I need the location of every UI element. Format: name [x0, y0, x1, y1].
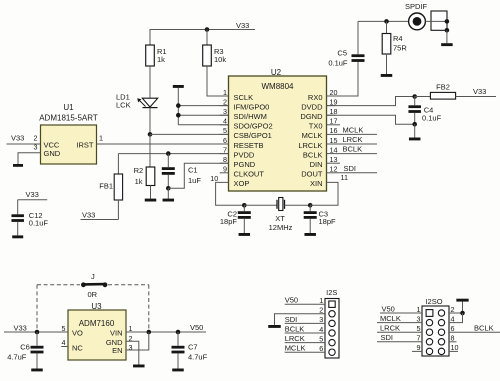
svg-text:LRCLK: LRCLK: [298, 141, 322, 150]
I2SO left wires (V50/MCLK/LRCK/SDI): [377, 304, 422, 351]
svg-text:5: 5: [223, 126, 227, 135]
svg-text:GND: GND: [44, 149, 61, 158]
svg-text:9: 9: [417, 343, 421, 352]
svg-text:XT: XT: [275, 214, 285, 223]
svg-text:C6: C6: [20, 342, 30, 351]
svg-text:0.1uF: 0.1uF: [29, 218, 49, 227]
I2SO pin10 stub: [449, 350, 458, 352]
wire R3 to SCLK (pin1): [207, 66, 229, 96]
wire U1 GND pin 3: [18, 153, 41, 164]
svg-text:2: 2: [34, 134, 38, 143]
svg-text:9: 9: [223, 165, 227, 174]
ground (C3): [304, 233, 316, 236]
junction C1 bottom: [166, 186, 171, 191]
svg-text:XIN: XIN: [310, 179, 323, 188]
wire CSB node to R2 (crosses IRST wire): [149, 134, 151, 167]
svg-text:10: 10: [210, 174, 218, 183]
net BCLK (I2SO pin6): [449, 324, 500, 333]
svg-text:U1: U1: [63, 103, 74, 112]
ground (U1 GND): [13, 164, 23, 167]
svg-text:LRCK: LRCK: [285, 334, 305, 343]
svg-text:18pF: 18pF: [220, 217, 238, 226]
connector I2SO header (2x5): [417, 297, 459, 356]
svg-text:14: 14: [330, 145, 338, 154]
svg-text:16: 16: [330, 126, 338, 135]
svg-text:R4: R4: [393, 34, 403, 43]
power rail V33 (top): [150, 21, 256, 30]
svg-text:R2: R2: [134, 166, 144, 175]
svg-text:SCLK: SCLK: [234, 93, 254, 102]
power flag V33 (U1 supply): [7, 134, 41, 145]
power flag V33 (C12): [18, 190, 48, 214]
junction C2 top: [242, 203, 247, 208]
svg-text:SDI: SDI: [285, 315, 298, 324]
junction R4 top: [384, 19, 389, 24]
capacitor C2 18pF: [220, 205, 251, 233]
svg-text:1uF: 1uF: [188, 176, 201, 185]
svg-text:PGND: PGND: [234, 160, 256, 169]
ground (U3 GND): [133, 365, 145, 368]
svg-text:18pF: 18pF: [319, 217, 337, 226]
I2SO pin8 stub: [449, 341, 457, 343]
svg-text:J: J: [91, 272, 95, 281]
svg-text:15: 15: [330, 136, 338, 145]
svg-text:10k: 10k: [214, 55, 226, 64]
svg-text:7: 7: [417, 334, 421, 343]
resistor R3 10k: [203, 30, 227, 67]
crystal XT 12MHz: [269, 198, 293, 232]
svg-text:LRCK: LRCK: [343, 135, 363, 144]
svg-text:C1: C1: [188, 166, 198, 175]
svg-text:4: 4: [451, 314, 455, 323]
svg-text:1k: 1k: [157, 55, 165, 64]
svg-text:10: 10: [451, 343, 459, 352]
svg-text:12MHz: 12MHz: [269, 223, 293, 232]
connector SPDIF (RCA jack): [405, 2, 449, 43]
ferrite bead FB1: [99, 154, 122, 220]
net LRCK (pin15): [335, 135, 377, 144]
wire crystal right: [285, 204, 311, 206]
svg-text:FB1: FB1: [99, 182, 113, 191]
svg-text:C5: C5: [337, 48, 347, 57]
svg-text:VO: VO: [72, 329, 83, 338]
junction pin3 tie: [176, 113, 181, 118]
svg-text:LRCK: LRCK: [380, 324, 400, 333]
svg-text:20: 20: [330, 88, 338, 97]
wire EN tie to VIN (pin3): [126, 332, 149, 350]
wire DVDD (pin19): [327, 97, 415, 106]
svg-text:U2: U2: [271, 68, 282, 77]
IC U2 WM8804 S/PDIF transceiver: [210, 68, 348, 191]
svg-text:1: 1: [417, 305, 421, 314]
svg-text:RX0: RX0: [308, 93, 323, 102]
capacitor C1 1uF: [162, 154, 202, 189]
svg-text:SDI: SDI: [381, 333, 394, 342]
junction I2SO ground tie: [460, 311, 465, 316]
svg-text:MCLK: MCLK: [302, 131, 323, 140]
wire VIN to V50: [126, 323, 206, 332]
svg-text:2: 2: [451, 305, 455, 314]
svg-text:17: 17: [330, 117, 338, 126]
svg-text:1: 1: [99, 134, 103, 143]
svg-text:4.7uF: 4.7uF: [188, 353, 208, 362]
ground (C7): [172, 369, 184, 372]
svg-text:3: 3: [417, 314, 421, 323]
ground (C4/DGND): [409, 138, 421, 141]
svg-text:MCLK: MCLK: [343, 125, 364, 134]
svg-text:VCC: VCC: [44, 140, 60, 149]
junction CSB/GPO1 node: [148, 132, 153, 137]
svg-text:I2SO: I2SO: [425, 297, 442, 306]
svg-text:1: 1: [129, 324, 133, 333]
wire XOP (pin10) to crystal: [216, 182, 245, 205]
wire I2SO pin2 to ground: [449, 302, 463, 313]
ground (C2): [239, 233, 251, 236]
svg-text:4: 4: [319, 325, 323, 334]
ground (pins 2,3,4 tie-off): [173, 85, 229, 125]
svg-text:SDO/GPO2: SDO/GPO2: [234, 122, 273, 131]
svg-text:18: 18: [330, 107, 338, 116]
svg-text:I2S: I2S: [326, 288, 337, 297]
junction C7 top: [176, 330, 181, 335]
capacitor C4 0.1uF: [408, 97, 441, 125]
ground (R4): [381, 74, 393, 77]
resistor R4 75R: [382, 21, 407, 74]
svg-text:DOUT: DOUT: [301, 170, 323, 179]
ground (C6): [31, 369, 43, 372]
svg-text:4: 4: [62, 338, 66, 347]
svg-text:XOP: XOP: [234, 179, 250, 188]
svg-text:V50: V50: [190, 323, 203, 332]
wire U3 GND (pin2): [126, 341, 139, 364]
svg-text:C7: C7: [188, 342, 198, 351]
svg-text:6: 6: [223, 136, 227, 145]
svg-text:V50: V50: [382, 304, 395, 313]
svg-text:BCLK: BCLK: [303, 150, 323, 159]
junction EN/VIN node: [147, 330, 152, 335]
svg-text:WM8804: WM8804: [261, 82, 294, 91]
svg-text:MCLK: MCLK: [380, 314, 401, 323]
svg-text:FB2: FB2: [436, 83, 450, 92]
junction C4 top: [412, 94, 417, 99]
wire crystal to XIN (pin11): [310, 182, 338, 205]
connector I2S header: [319, 288, 339, 358]
svg-text:ADM7160: ADM7160: [79, 319, 115, 328]
svg-text:13: 13: [330, 155, 338, 164]
svg-text:3: 3: [319, 315, 323, 324]
svg-text:3: 3: [223, 107, 227, 116]
svg-text:1: 1: [319, 296, 323, 305]
net BCLK (pin14): [335, 145, 377, 154]
svg-text:V33: V33: [14, 324, 27, 333]
svg-text:V33: V33: [82, 210, 95, 219]
svg-text:IFM/GPO0: IFM/GPO0: [234, 102, 270, 111]
svg-text:IRST: IRST: [76, 140, 94, 149]
svg-text:V33: V33: [26, 190, 39, 199]
svg-text:V50: V50: [285, 296, 298, 305]
svg-text:1: 1: [223, 88, 227, 97]
svg-text:RESETB: RESETB: [234, 141, 264, 150]
svg-text:11: 11: [341, 173, 348, 182]
svg-text:DIN: DIN: [310, 160, 323, 169]
wire PVDD (pin7): [118, 153, 228, 155]
svg-text:6: 6: [319, 344, 323, 353]
svg-text:EN: EN: [112, 346, 122, 355]
LED LD1 (LCK indicator): [116, 93, 158, 110]
ground (SPDIF shield): [441, 43, 453, 46]
wire LED cathode to junction: [149, 108, 151, 135]
net MCLK (pin16): [335, 125, 377, 134]
svg-text:V33: V33: [11, 134, 24, 143]
svg-text:12: 12: [330, 165, 338, 174]
wire RX0 (pin20) to C5: [327, 62, 359, 96]
ground (I2SO pin2, bar above): [456, 299, 468, 302]
ground (C12): [12, 235, 23, 238]
ground (C1/PGND): [163, 199, 175, 202]
wire C1 bottom to ground: [167, 188, 169, 198]
power flag V33 (FB1): [81, 210, 119, 219]
wire C4 bottom to ground: [414, 124, 416, 137]
svg-text:PVDD: PVDD: [234, 150, 255, 159]
capacitor C7 4.7uF: [172, 332, 208, 369]
power flag V33 (U3 input): [4, 324, 68, 333]
svg-text:4.7uF: 4.7uF: [7, 353, 27, 362]
junction R3 top: [205, 27, 210, 32]
svg-text:1k: 1k: [135, 177, 143, 186]
svg-text:VIN: VIN: [110, 329, 123, 338]
junction C6 top: [35, 330, 40, 335]
capacitor C3 18pF: [304, 205, 336, 233]
resistor R2 1k: [134, 166, 155, 199]
svg-text:V33: V33: [236, 21, 249, 30]
svg-text:0.1uF: 0.1uF: [328, 59, 348, 68]
ground (R2): [145, 199, 157, 202]
power flag V33 (FB2): [456, 87, 496, 97]
wire C1 bottom to PGND (pin8): [168, 163, 228, 188]
svg-text:U3: U3: [91, 302, 102, 311]
svg-text:BCLK: BCLK: [343, 145, 363, 154]
junction C4 bottom: [412, 122, 417, 127]
svg-text:MCLK: MCLK: [285, 344, 306, 353]
junction C3 top: [308, 203, 313, 208]
jumper J 0R (dashed bypass): [37, 272, 149, 332]
svg-text:6: 6: [451, 324, 455, 333]
svg-text:V33: V33: [473, 87, 486, 96]
wire I2SO pin4 tie: [449, 313, 463, 323]
svg-text:LCK: LCK: [116, 101, 131, 110]
svg-text:0R: 0R: [88, 290, 98, 299]
svg-text:75R: 75R: [393, 44, 407, 53]
svg-text:SPDIF: SPDIF: [405, 2, 428, 11]
svg-text:5: 5: [417, 324, 421, 333]
I2S signal wires (V50/SDI/BCLK/LRCK/MCLK): [285, 296, 325, 353]
svg-text:7: 7: [223, 145, 227, 154]
svg-text:CLKOUT: CLKOUT: [234, 170, 265, 179]
ferrite bead FB2: [415, 83, 456, 100]
svg-text:19: 19: [330, 97, 338, 106]
svg-text:DGND: DGND: [300, 112, 323, 121]
capacitor C6 4.7uF: [7, 332, 43, 369]
svg-text:TX0: TX0: [309, 122, 323, 131]
svg-text:8: 8: [451, 334, 455, 343]
svg-text:5: 5: [62, 324, 66, 333]
wire IRST (U1 pin1 to U2 RESETB pin6): [97, 143, 229, 145]
wire SPDIF signal: [358, 20, 409, 22]
resistor R1 1k: [146, 30, 167, 98]
svg-text:NC: NC: [72, 343, 83, 352]
svg-text:BCLK: BCLK: [474, 324, 494, 333]
svg-text:4: 4: [223, 117, 227, 126]
svg-text:0.1uF: 0.1uF: [422, 114, 442, 123]
svg-text:3: 3: [34, 143, 38, 152]
IC U3 ADM7160 regulator: [61, 302, 132, 360]
svg-text:5: 5: [319, 334, 323, 343]
svg-text:SDI/HWM: SDI/HWM: [234, 112, 267, 121]
svg-text:2: 2: [319, 306, 323, 315]
wire CSB/GPO1 (pin5): [150, 133, 229, 135]
IC U1 ADM1815-5ART supply monitor: [34, 103, 104, 164]
wire crystal left: [244, 204, 277, 206]
svg-text:ADM1815-5ART: ADM1815-5ART: [39, 113, 98, 122]
svg-text:2: 2: [223, 97, 227, 106]
svg-text:SDI: SDI: [344, 164, 357, 173]
wire I2S pin2 to ground: [275, 314, 326, 325]
ground (I2S pin2): [268, 325, 281, 328]
svg-text:BCLK: BCLK: [285, 324, 305, 333]
capacitor C5 0.1uF: [328, 21, 364, 67]
svg-text:CSB/GPO1: CSB/GPO1: [234, 131, 272, 140]
svg-text:DVDD: DVDD: [301, 102, 323, 111]
capacitor C12 0.1uF: [11, 211, 48, 235]
net SDI (pin12 DOUT): [335, 164, 377, 173]
wire DGND (pin18): [327, 115, 415, 124]
svg-text:8: 8: [223, 155, 227, 164]
junction pin2 tie: [176, 103, 181, 108]
junction C1 top: [166, 151, 171, 156]
